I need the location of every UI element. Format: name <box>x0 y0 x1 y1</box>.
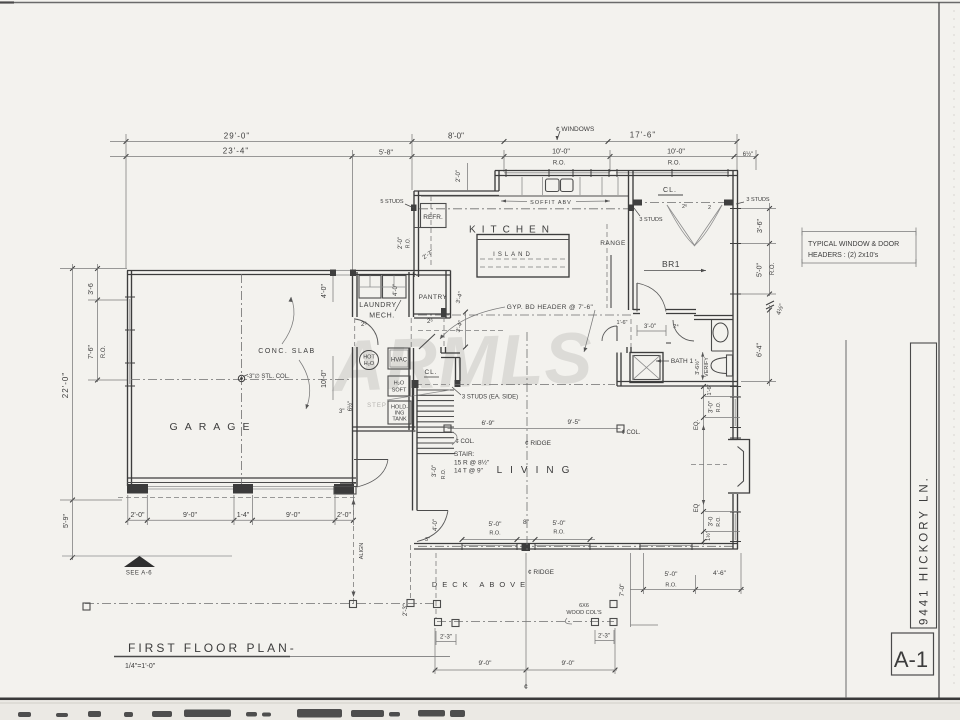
svg-text:10'-0": 10'-0" <box>552 149 570 156</box>
svg-text:3'-6: 3'-6 <box>88 283 95 295</box>
kitchen west wall <box>413 191 415 277</box>
svg-text:R.O.: R.O. <box>406 238 412 248</box>
closet bifold doors <box>667 205 695 246</box>
svg-text:R.O.: R.O. <box>101 346 107 359</box>
stair corridor east wall (jog) <box>443 317 445 347</box>
bath west wall <box>616 353 618 387</box>
kitchen NW step wall <box>494 171 496 192</box>
dimension line 23-4 / 5-8 / 10-0 / 10-0 / 6.5 <box>110 156 757 158</box>
svg-text:BATH 1: BATH 1 <box>671 358 694 365</box>
svg-text:EQ: EQ <box>694 503 700 512</box>
stair direction line <box>387 390 450 400</box>
island <box>477 235 569 278</box>
deck bottom dim line 9-0 9-0 <box>434 669 618 671</box>
svg-text:R.O.: R.O. <box>441 469 447 479</box>
svg-text:¢: ¢ <box>524 684 528 691</box>
svg-text:2'-0": 2'-0" <box>337 512 351 519</box>
svg-text:PANTRY: PANTRY <box>419 294 448 301</box>
pantry north wall continues <box>416 270 451 272</box>
header dash to bath <box>455 384 615 386</box>
svg-text:5'-9": 5'-9" <box>63 514 70 528</box>
garage centerline vertical <box>241 274 243 484</box>
laundry door from garage <box>355 319 378 345</box>
living west wall <box>412 388 414 511</box>
svg-text:22'-0": 22'-0" <box>61 372 70 398</box>
washer dryer <box>359 276 381 299</box>
svg-text:9'-0": 9'-0" <box>183 512 197 519</box>
svg-text:HOT: HOT <box>363 355 375 361</box>
right dim 6-4 <box>769 305 771 386</box>
svg-text:A-1: A-1 <box>894 647 928 672</box>
svg-text:H₂O: H₂O <box>394 381 405 387</box>
svg-text:CL.: CL. <box>424 369 437 376</box>
svg-text:2'-0": 2'-0" <box>398 237 404 249</box>
header dash-dot across hall <box>418 314 632 316</box>
column centerline dim <box>448 428 621 430</box>
3 studs blocks at stair opening <box>412 380 419 388</box>
kitchen north windows <box>504 172 610 174</box>
svg-text:4'-0": 4'-0" <box>433 519 439 531</box>
svg-text:9'-0": 9'-0" <box>479 660 493 667</box>
svg-text:MECH.: MECH. <box>369 313 395 320</box>
long extension line lower left <box>62 555 232 557</box>
garage west wall window marks <box>125 296 135 298</box>
garage north wall <box>127 270 416 272</box>
living entry door from deck <box>417 510 448 512</box>
garage west wall <box>127 271 129 487</box>
svg-text:SOFT: SOFT <box>392 388 407 394</box>
page bottom border line <box>0 697 960 700</box>
svg-text:14 T @ 9": 14 T @ 9" <box>454 468 484 475</box>
slab edge dashed <box>118 497 356 499</box>
svg-text:3 STUDS: 3 STUDS <box>639 217 663 223</box>
svg-text:3": 3" <box>425 537 430 543</box>
kitchen east wall (BR1 west) <box>628 171 630 311</box>
deck dashed line upper <box>85 603 434 605</box>
svg-text:WOOD COL'S: WOOD COL'S <box>566 610 602 616</box>
svg-text:ALIGN: ALIGN <box>359 543 365 560</box>
svg-text:6X6: 6X6 <box>579 603 589 609</box>
svg-text:2⁶: 2⁶ <box>682 203 687 210</box>
svg-text:5'-0": 5'-0" <box>489 521 503 528</box>
svg-text:5'-0": 5'-0" <box>553 520 567 527</box>
garage bottom dimension line 2-0 9-0 1-4 9-0 2-0 <box>128 519 354 521</box>
svg-text:2'-3": 2'-3" <box>598 634 610 640</box>
svg-text:ISLAND: ISLAND <box>493 252 533 258</box>
svg-text:15 R @ 8½": 15 R @ 8½" <box>454 459 490 467</box>
svg-text:3'-0": 3'-0" <box>644 324 656 330</box>
HVAC <box>388 348 410 369</box>
svg-text:R.O.: R.O. <box>716 516 722 526</box>
svg-text:3": 3" <box>339 409 344 415</box>
svg-text:H₂O: H₂O <box>364 361 375 367</box>
deck vertical dashes <box>410 545 412 599</box>
svg-text:1½": 1½" <box>705 531 712 541</box>
ridge post in wall <box>522 543 531 551</box>
svg-text:4'-0": 4'-0" <box>393 284 399 296</box>
laundry west wall (garage east wall) <box>352 272 354 317</box>
hall west wall <box>630 319 632 347</box>
pantry east wall <box>445 271 447 319</box>
mudroom exterior door <box>354 459 388 461</box>
svg-text:GARAGE: GARAGE <box>170 421 257 433</box>
garage door opening lines <box>148 486 233 488</box>
align dashed vertical <box>353 494 355 603</box>
east wall window marks lower <box>730 511 741 513</box>
BR1 south wall <box>633 309 640 311</box>
bath door <box>666 342 671 344</box>
svg-text:6'-9": 6'-9" <box>482 420 496 427</box>
ridge centerline vertical <box>526 332 528 552</box>
svg-text:SOFFIT ABV: SOFFIT ABV <box>530 200 572 206</box>
svg-text:4'-0": 4'-0" <box>321 284 328 298</box>
svg-text:2'-0": 2'-0" <box>131 512 145 519</box>
svg-text:9441 HICKORY LN.: 9441 HICKORY LN. <box>919 475 931 625</box>
south wall centerline <box>418 545 735 547</box>
svg-text:STAIR:: STAIR: <box>454 451 475 458</box>
deck posts <box>83 603 90 610</box>
bottom right dims 5-0 R.O. 4-6 <box>630 589 744 591</box>
living south wall <box>414 543 738 545</box>
hot water heater <box>360 351 379 370</box>
svg-text:6'-4": 6'-4" <box>757 343 764 357</box>
svg-text:TYPICAL WINDOW & DOOR: TYPICAL WINDOW & DOOR <box>808 241 899 248</box>
svg-text:2'-3": 2'-3" <box>440 635 452 641</box>
pantry south wall <box>414 313 451 315</box>
sheet number box A-1 <box>892 633 934 675</box>
bay window bump <box>738 440 750 494</box>
garage centerline horizontal <box>131 379 353 381</box>
svg-text:¢ COL.: ¢ COL. <box>621 430 640 436</box>
svg-text:7'-0": 7'-0" <box>619 583 626 597</box>
svg-text:5 STUDS: 5 STUDS <box>380 199 404 205</box>
bottom scan dark marks <box>18 709 465 718</box>
kitchen sink <box>546 179 560 192</box>
svg-text:9'-0": 9'-0" <box>286 512 300 519</box>
svg-text:3'-6": 3'-6" <box>757 219 764 233</box>
dim extension lines <box>125 134 127 268</box>
svg-text:-3"∅ STL. COL.: -3"∅ STL. COL. <box>247 373 290 380</box>
garage foundation piers <box>127 484 148 494</box>
svg-text:DECK ABOVE: DECK ABOVE <box>432 580 530 589</box>
svg-text:BR1: BR1 <box>662 259 680 269</box>
refrigerator nook <box>421 204 447 228</box>
right dim line 3-6 / 5-0 <box>769 203 771 296</box>
svg-text:7'-6": 7'-6" <box>88 345 95 359</box>
svg-text:LAUNDRY: LAUNDRY <box>359 302 397 309</box>
svg-text:STEP: STEP <box>367 403 387 409</box>
kitchen upper-west wall <box>414 190 499 192</box>
svg-text:17'-6": 17'-6" <box>630 131 656 140</box>
BR1 east wall window marks <box>730 208 741 210</box>
svg-text:2: 2 <box>708 205 711 211</box>
shower <box>630 353 663 383</box>
svg-text:29'-0": 29'-0" <box>224 132 250 141</box>
svg-text:TANK: TANK <box>392 417 407 423</box>
right dim line eq/3-0/eq lower <box>703 386 705 545</box>
svg-text:SEE A-6: SEE A-6 <box>126 571 152 577</box>
toilet <box>727 355 733 376</box>
svg-text:1'-6": 1'-6" <box>617 320 628 326</box>
svg-text:FIRST FLOOR PLAN-: FIRST FLOOR PLAN- <box>128 641 297 655</box>
svg-text:¢ WINDOWS: ¢ WINDOWS <box>556 126 595 133</box>
svg-text:HEADERS : (2) 2x10's: HEADERS : (2) 2x10's <box>808 252 879 259</box>
svg-text:LIVING: LIVING <box>497 465 578 476</box>
svg-text:R.O.: R.O. <box>665 583 677 589</box>
svg-text:3'-0": 3'-0" <box>709 401 715 413</box>
BR1 closet wall <box>633 202 733 204</box>
address box <box>911 343 937 628</box>
svg-text:R.O.: R.O. <box>770 263 776 276</box>
conc slab leader arrows <box>282 297 294 344</box>
holding tank <box>388 401 411 424</box>
svg-text:¢ RIDGE: ¢ RIDGE <box>528 569 555 576</box>
SEE A-6 triangle <box>124 556 155 567</box>
sink oval <box>713 323 728 342</box>
BR1 east exterior wall <box>732 171 734 441</box>
svg-text:5'-0": 5'-0" <box>665 571 679 578</box>
svg-text:10'-0": 10'-0" <box>321 370 328 388</box>
BR1 entry door <box>636 283 638 312</box>
svg-text:CONC. SLAB: CONC. SLAB <box>258 348 315 355</box>
dimension line 29-0 / 8-0 / 17-6 <box>110 141 738 143</box>
steel column <box>238 375 244 381</box>
svg-text:EQ.: EQ. <box>694 420 700 431</box>
svg-text:REFR.: REFR. <box>423 214 443 221</box>
svg-text:CL.: CL. <box>663 187 677 194</box>
south wall window marks <box>462 545 517 547</box>
svg-text:3 STUDS (EA. SIDE): 3 STUDS (EA. SIDE) <box>462 395 518 401</box>
svg-text:8'-0": 8'-0" <box>448 132 464 141</box>
right title strip line <box>845 340 847 698</box>
west counter dashed <box>430 196 432 268</box>
svg-text:3 STUDS: 3 STUDS <box>746 197 770 203</box>
kitchen cabinets line <box>421 195 628 197</box>
svg-text:R.O.: R.O. <box>716 402 722 412</box>
left dimension line 3-6 / 7-6 R.O. <box>97 264 99 382</box>
svg-text:23'-4": 23'-4" <box>223 147 249 156</box>
svg-text:R.O.: R.O. <box>489 531 501 537</box>
garage dim extensions <box>127 495 129 525</box>
stairs treads <box>417 389 455 391</box>
svg-text:9'-5": 9'-5" <box>568 419 582 426</box>
svg-text:3'-0: 3'-0 <box>709 516 715 526</box>
svg-text:1-4": 1-4" <box>237 512 250 519</box>
laundry east wall <box>408 272 410 317</box>
svg-text:1/4"=1'-0": 1/4"=1'-0" <box>125 663 156 670</box>
svg-text:¢ RIDGE: ¢ RIDGE <box>525 440 552 447</box>
living east wall lower <box>732 494 734 549</box>
soffit dashed line <box>419 208 628 210</box>
svg-text:10'-0": 10'-0" <box>667 149 685 156</box>
bath south wall <box>617 381 738 383</box>
svg-text:RANGE: RANGE <box>600 240 626 247</box>
right margin scan noise <box>953 10 955 690</box>
garage south wall <box>127 477 356 479</box>
H2O softener <box>388 376 410 396</box>
svg-text:HVAC: HVAC <box>391 358 408 364</box>
svg-text:5'-0": 5'-0" <box>757 263 764 277</box>
second dash line <box>418 330 505 332</box>
svg-text:6½": 6½" <box>743 151 753 158</box>
bottom scan strip <box>0 700 960 720</box>
svg-text:2⁶: 2⁶ <box>427 318 433 325</box>
deck dashed line lower <box>437 621 614 623</box>
svg-text:2⁶: 2⁶ <box>361 321 367 328</box>
laundry south wall <box>353 426 416 428</box>
svg-text:9'-0": 9'-0" <box>562 660 576 667</box>
kitchen north exterior wall <box>495 170 738 172</box>
svg-text:VERIFY: VERIFY <box>704 357 710 377</box>
svg-text:2'-0": 2'-0" <box>456 170 462 182</box>
range area <box>606 224 608 308</box>
svg-text:1'-6": 1'-6" <box>707 384 713 395</box>
page right border line <box>938 2 940 699</box>
svg-text:5'-8": 5'-8" <box>379 150 393 157</box>
typical window door headers note box <box>802 232 916 264</box>
svg-text:R.O.: R.O. <box>553 530 565 536</box>
page top border line <box>0 2 960 4</box>
svg-text:8": 8" <box>523 519 530 526</box>
svg-text:R.O.: R.O. <box>553 161 566 167</box>
stair closet dashed <box>417 384 450 386</box>
svg-text:GYP. BD HEADER @ 7'-6": GYP. BD HEADER @ 7'-6" <box>507 304 594 311</box>
stoop <box>334 487 356 495</box>
svg-text:4'-6": 4'-6" <box>713 570 727 577</box>
vanity wall <box>711 320 713 351</box>
svg-text:R.O.: R.O. <box>668 161 681 167</box>
svg-text:3'-6½": 3'-6½" <box>694 359 701 375</box>
svg-text:3'-0": 3'-0" <box>432 465 438 477</box>
svg-text:¢ COL.: ¢ COL. <box>455 439 474 445</box>
left extension lines <box>60 268 127 270</box>
left dimension line 22-0 / 5-9 <box>72 264 74 560</box>
svg-text:2'-3": 2'-3" <box>403 604 409 616</box>
mudroom south wall stub <box>340 482 356 484</box>
